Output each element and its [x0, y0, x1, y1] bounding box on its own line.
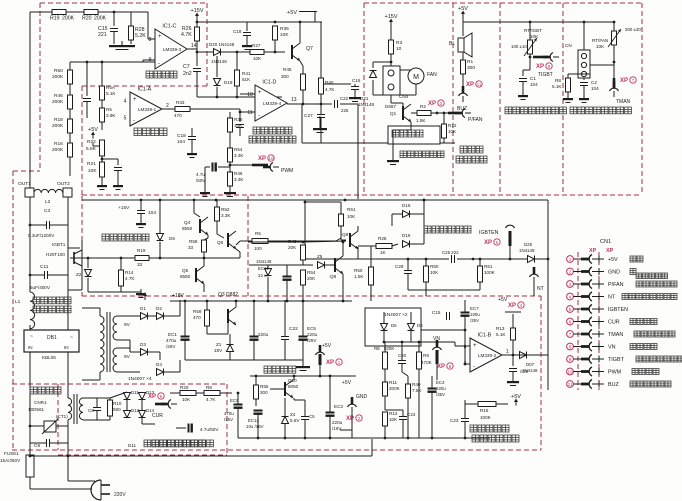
label 1N4007x2: [384, 312, 408, 318]
svg-text:8550: 8550: [182, 226, 193, 231]
resistor R51: [478, 266, 483, 282]
svg-text:104: 104: [148, 210, 156, 216]
wire r58 to row: [203, 252, 205, 258]
wire r5a branch: [101, 62, 103, 86]
transformer block step: [13, 170, 40, 172]
label D1: [140, 306, 146, 311]
connector CN1 pin 6 circle: [567, 318, 574, 325]
resistor R48: [301, 245, 306, 260]
wire r3 to relay: [390, 54, 392, 66]
caption volt sample line1: [470, 425, 509, 432]
connector CN1 pin 5 tick: [592, 306, 604, 313]
label R5B: [106, 107, 112, 112]
svg-text:R59: R59: [193, 309, 202, 314]
svg-text:IC1-A: IC1-A: [138, 87, 152, 93]
svg-text:Q3 D882: Q3 D882: [218, 292, 238, 298]
svg-text:LM339-2: LM339-2: [478, 353, 497, 358]
label Q4: [184, 220, 191, 225]
wire cur thick lead: [155, 403, 166, 406]
svg-text:10K: 10K: [389, 417, 398, 422]
label CN1 pin 6 name: [608, 320, 620, 326]
wire d6 top: [383, 312, 385, 323]
label D6: [391, 323, 397, 328]
svg-text:-: -: [473, 364, 475, 370]
svg-text:221: 221: [98, 32, 107, 38]
svg-text:IC1-C: IC1-C: [162, 24, 176, 30]
label R16c: [480, 408, 489, 413]
label D4: [156, 362, 162, 367]
node z2 tap: [87, 257, 90, 260]
wire gnd pin drop: [351, 412, 353, 438]
label XP7 TMAN: [620, 77, 636, 84]
svg-text:R38: R38: [234, 117, 243, 122]
wire q4 col: [194, 200, 200, 217]
svg-text:R41: R41: [242, 71, 251, 76]
label CN1: [600, 239, 611, 245]
node r48 top: [302, 241, 305, 244]
resistor R55: [254, 385, 259, 399]
label Q1: [390, 111, 397, 116]
wire z4 bot: [284, 424, 286, 438]
diode D8: [408, 324, 415, 331]
label EC13 value: [246, 424, 264, 429]
svg-text:+18V: +18V: [172, 293, 184, 299]
svg-text:9V: 9V: [124, 322, 131, 328]
node gnd bus d: [329, 437, 332, 440]
wire Q7 collector: [299, 22, 301, 43]
capacitor EC9: [234, 405, 243, 409]
svg-text:51K: 51K: [242, 77, 251, 82]
diode D25p: [528, 256, 535, 263]
wire ec3 bot: [329, 416, 331, 438]
wire r16c right: [496, 403, 508, 405]
label C3: [44, 208, 50, 214]
wire c8 top: [96, 398, 98, 407]
svg-text:CN: CN: [565, 43, 572, 48]
wire R41 top lead: [236, 52, 238, 70]
wire +5 row: [247, 21, 322, 23]
zener Z4: [282, 417, 289, 424]
label EC4 v: [436, 386, 446, 391]
svg-text:VN: VN: [608, 345, 616, 351]
svg-text:1: 1: [506, 349, 509, 355]
wire db1 right drop: [67, 352, 69, 398]
wire ec5 bot: [302, 340, 304, 360]
connector CN1 pin 10 plug: [581, 367, 592, 376]
label DB1 in1: [28, 345, 33, 350]
wire det bridge b: [141, 400, 143, 410]
label R19d: [137, 248, 146, 253]
wire samp rail: [384, 341, 455, 343]
wire box bottom line: [302, 142, 455, 144]
wire igbt coll: [81, 240, 83, 248]
label Q7: [306, 46, 313, 52]
label CN1 pin 8 desc: [630, 344, 657, 350]
svg-text:10: 10: [247, 92, 253, 98]
wire r9 top: [418, 342, 420, 352]
wire r20b left: [170, 392, 180, 394]
label TMAN: [616, 99, 631, 105]
label P/FAN: [468, 117, 483, 123]
wire aux mid row: [249, 264, 313, 266]
label BUZ: [457, 106, 467, 112]
wire c22 bot: [284, 340, 286, 360]
wire ic1d minus drop: [239, 112, 241, 122]
svg-text:300 ±20: 300 ±20: [625, 27, 641, 32]
node filter c: [425, 258, 428, 261]
wire pwm thick lead: [252, 164, 268, 167]
label R50b: [430, 264, 439, 269]
node filter b: [407, 258, 410, 261]
wire divider bottom: [69, 157, 71, 176]
zener Z5: [318, 262, 325, 269]
svg-text:R5A: R5A: [106, 85, 116, 90]
label D14: [146, 408, 155, 413]
svg-text:8: 8: [149, 37, 152, 43]
transistor Q8: [350, 231, 358, 249]
svg-text:TIGBT: TIGBT: [538, 72, 553, 78]
label R5A: [106, 85, 116, 90]
svg-text:5.1K: 5.1K: [496, 332, 506, 337]
thermistor RT-IGBT arrow: [524, 38, 537, 56]
node R35 top: [274, 21, 277, 24]
label C2t: [591, 80, 597, 85]
label R10 value: [113, 407, 121, 412]
svg-text:XP: XP: [620, 78, 628, 84]
wire r10 top: [97, 398, 110, 400]
label R5A value: [106, 91, 116, 96]
label 1N4007x4: [128, 376, 152, 382]
transistor Q3: [228, 307, 236, 325]
svg-text:0.3uF/1200V: 0.3uF/1200V: [28, 233, 55, 238]
wire c1 gnd: [522, 82, 524, 94]
wire pwm out: [230, 164, 262, 166]
wire D20 to R27: [221, 51, 252, 53]
label R33: [176, 100, 185, 105]
label C28p: [442, 250, 459, 255]
svg-text:100 ±10: 100 ±10: [511, 44, 527, 49]
node samp rail d: [436, 341, 439, 344]
transistor Q6: [228, 231, 236, 249]
wire fan bottom link: [400, 84, 416, 95]
node bus g: [302, 300, 305, 303]
wire ec4 top: [431, 376, 433, 388]
wire r52 top lead: [216, 200, 218, 207]
wire ec5 top: [302, 301, 304, 336]
wire c24 bot: [402, 420, 404, 438]
caption pulse label: [392, 130, 423, 137]
node gnd bus e: [384, 437, 387, 440]
wire d25 right: [527, 354, 548, 356]
capacitor EC11: [283, 277, 292, 281]
label EC8 value: [200, 427, 219, 432]
svg-text:/25V: /25V: [470, 318, 479, 323]
wire igbt em: [81, 268, 83, 290]
connector pin TIGBT: [543, 53, 559, 62]
wire protect row b: [457, 258, 548, 260]
transformer CT1 core: [74, 394, 77, 424]
wire ec1 bot: [184, 340, 186, 360]
wire fan supply: [390, 25, 392, 40]
wire z1 bot: [229, 352, 231, 360]
label C18a: [233, 29, 242, 34]
svg-text:R13: R13: [496, 326, 505, 331]
label CUR: [152, 413, 163, 419]
label R54b: [307, 270, 316, 275]
capacitor C7: [193, 69, 201, 72]
wire cn5 top to bus: [583, 22, 585, 50]
svg-text:9: 9: [569, 357, 572, 362]
svg-text:560: 560: [113, 407, 121, 412]
label CN4: [399, 94, 409, 99]
wire r5a link: [101, 100, 103, 108]
wire d25 left: [505, 354, 519, 356]
wire IC1-D + input: [240, 93, 255, 95]
diode D16: [403, 241, 410, 248]
wire c22 top: [284, 300, 286, 336]
label CN1 pin 2 desc: [630, 269, 636, 275]
capacitor C21: [301, 417, 309, 420]
svg-text:8050: 8050: [288, 384, 299, 389]
caption igbt drive circuit: [102, 234, 149, 241]
label EC9 v: [224, 411, 234, 416]
svg-text:220u: 220u: [332, 420, 343, 425]
node c11 l: [29, 274, 32, 277]
lower block border right: [540, 296, 542, 450]
label R13 value: [496, 332, 506, 337]
resistor R14: [119, 270, 124, 286]
svg-text:14: 14: [191, 43, 197, 49]
caption protect circuit: [424, 226, 471, 233]
svg-text:1K: 1K: [380, 250, 387, 255]
connector CN1 pin 1 lead: [573, 258, 581, 260]
label R55: [260, 384, 269, 389]
wire q6 to r5: [236, 241, 252, 245]
capacitor C18a: [243, 33, 251, 36]
svg-text:RT/IGBT: RT/IGBT: [524, 28, 542, 33]
node D19 tap: [236, 51, 239, 54]
svg-text:D8: D8: [417, 323, 423, 328]
node gnd bus g: [431, 437, 434, 440]
wire ec9 top: [237, 393, 239, 404]
ground drive: [136, 289, 146, 298]
wire r52 down: [217, 221, 224, 238]
wire c18b top: [191, 128, 193, 136]
wire divider chain: [69, 62, 71, 70]
label R58 value: [188, 245, 194, 250]
label Q3: [0, 0, 1, 1]
label R51: [484, 264, 493, 269]
svg-text:NT: NT: [537, 286, 544, 292]
wire r60b bot lead: [370, 285, 372, 301]
rectifier D11: [124, 393, 131, 400]
resistor R41: [235, 70, 240, 86]
svg-text:GND: GND: [356, 394, 368, 400]
label XP4 NT: [508, 302, 524, 309]
label XP6 CUR: [148, 393, 164, 400]
svg-text:10: 10: [269, 156, 274, 161]
svg-text:Q9: Q9: [330, 274, 337, 279]
label R54b value: [307, 276, 316, 281]
svg-text:RT/FAN: RT/FAN: [592, 38, 608, 43]
wire r38-r54: [229, 132, 231, 148]
connector CN1 body right: [598, 252, 600, 390]
svg-text:R54: R54: [234, 147, 243, 152]
wire c6 right: [50, 442, 68, 444]
svg-text:-: -: [158, 61, 160, 67]
transistor Q4: [200, 217, 208, 235]
wire temp bus: [463, 21, 615, 23]
caption aux power: [264, 366, 296, 373]
svg-text:D16: D16: [402, 233, 411, 238]
svg-text:D25: D25: [524, 242, 533, 247]
svg-text:D4: D4: [156, 362, 162, 367]
wire R45 to out bus: [302, 90, 304, 104]
node gnd bus f: [407, 437, 410, 440]
svg-text:D15: D15: [402, 203, 411, 208]
svg-text:R45: R45: [283, 67, 292, 72]
svg-text:R28: R28: [378, 236, 387, 241]
resistor R54b: [301, 270, 306, 285]
capacitor C19a: [114, 168, 122, 171]
label R52: [221, 207, 230, 212]
wire r16c left: [465, 403, 478, 405]
label XP1 +5V: [326, 359, 342, 366]
current-detect block right: [226, 384, 228, 455]
wire IC1-D output: [287, 103, 332, 105]
svg-text:100: 100: [254, 246, 262, 251]
thermistor RT-PAN: [612, 31, 617, 45]
svg-text:OUT1: OUT1: [18, 181, 31, 187]
svg-text:-: -: [133, 118, 135, 124]
current-detect block top: [12, 383, 227, 385]
wire ic1b out: [502, 354, 548, 356]
label R28b value: [380, 250, 387, 255]
label D25: [526, 362, 535, 367]
label R27 value: [253, 56, 262, 61]
svg-text:Z1: Z1: [216, 342, 222, 347]
wire samp row: [421, 329, 465, 331]
label RT/IGBT value: [530, 34, 539, 39]
wire igbt em join: [68, 289, 82, 291]
wire ec6 link: [218, 166, 230, 168]
resistor R28: [129, 26, 134, 40]
label R18: [54, 117, 63, 123]
wire r8 branch: [568, 74, 590, 78]
label R48: [288, 239, 297, 244]
ground C104: [136, 219, 146, 228]
svg-text:100u: 100u: [470, 312, 480, 317]
connector CN1 pin 6 tick: [592, 318, 604, 325]
connector CN1 pin 5 plug: [581, 305, 592, 314]
transformer T1 core: [107, 312, 110, 372]
svg-text:EC3: EC3: [334, 404, 343, 409]
resistor R54a: [228, 148, 233, 162]
node relay top: [390, 61, 393, 64]
fan block border left: [363, 3, 365, 195]
caption fan drive circuit: [400, 151, 444, 158]
label D25p: [524, 242, 533, 247]
label DB1 in2: [64, 345, 69, 350]
wire R35 bottom: [274, 40, 276, 52]
label EC4: [436, 380, 445, 385]
label R20b value: [182, 397, 191, 402]
svg-text:R33: R33: [176, 100, 185, 105]
wire sync input row: [30, 11, 131, 13]
ground C2t: [579, 94, 589, 103]
label R13: [496, 326, 505, 331]
label R19d value: [137, 262, 143, 267]
svg-text:4: 4: [124, 99, 127, 105]
svg-text:22 u: 22 u: [258, 273, 267, 278]
caption sawtooth line1 pre: [0, 0, 1, 1]
power +18V arrow: [143, 292, 147, 300]
node samp rail a: [383, 341, 386, 344]
label VN: [433, 336, 440, 342]
transistor Q10: [285, 380, 293, 398]
node samp b: [464, 363, 467, 366]
label C24: [407, 412, 416, 417]
label D25 value: [522, 368, 538, 373]
ground pwm b: [224, 188, 236, 197]
label R9: [423, 353, 429, 358]
label R12b value: [389, 417, 398, 422]
label R40b: [412, 382, 421, 387]
wire fb cap branch: [102, 159, 118, 165]
svg-text:10: 10: [396, 46, 402, 52]
svg-text:Z5: Z5: [317, 254, 323, 259]
svg-text:L2: L2: [45, 199, 51, 205]
wire divider link1: [69, 84, 71, 95]
svg-text:OUT2: OUT2: [57, 181, 70, 187]
wire t1 sec2 bot: [117, 371, 140, 373]
capacitor C15b: [447, 312, 450, 320]
caption igbt temp detect: [505, 107, 566, 114]
terminal OUT1: [25, 188, 34, 197]
connector CN1 pin 8 circle: [567, 343, 574, 350]
wire q10 coll: [293, 376, 295, 380]
node rail q10 a: [255, 375, 258, 378]
svg-text:BL: BL: [449, 41, 455, 47]
wire ec7 top: [464, 300, 466, 312]
rectifier D14: [139, 411, 146, 418]
svg-text:D3: D3: [140, 342, 146, 347]
label R46: [54, 93, 63, 99]
node fb a: [86, 61, 89, 64]
wire r59 top: [206, 300, 208, 310]
resistor R5B: [100, 108, 105, 122]
ground C16: [349, 93, 361, 102]
svg-text:CNR1: CNR1: [34, 400, 47, 405]
label EC2 value: [258, 332, 269, 337]
node q9 coll row: [342, 241, 345, 244]
svg-text:200K: 200K: [52, 99, 64, 105]
wire ec8 left: [176, 427, 186, 429]
wire r46 gnd: [229, 186, 231, 191]
svg-text:R50: R50: [54, 68, 63, 74]
thermistor RT-PAN arrow: [608, 29, 621, 47]
svg-text:R1: R1: [467, 59, 473, 65]
svg-text:D6: D6: [169, 236, 175, 241]
node Q7 coll: [299, 21, 302, 24]
connector pin P/FAN: [455, 109, 471, 118]
wire drive return: [88, 291, 141, 293]
wire q4 em to r58: [204, 235, 208, 240]
svg-text:Q4: Q4: [184, 220, 191, 225]
svg-text:R51: R51: [484, 264, 493, 269]
label R2 value: [416, 118, 426, 123]
label DB1: [47, 335, 57, 341]
